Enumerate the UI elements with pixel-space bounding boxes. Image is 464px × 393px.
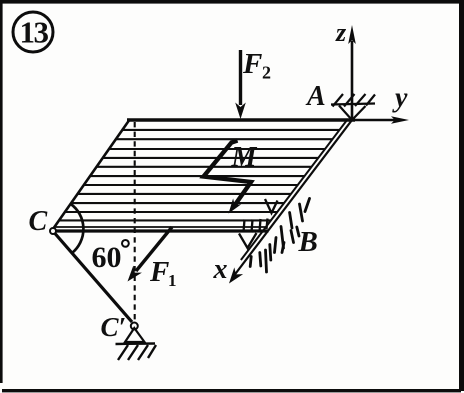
moment M zigzag arrow: [204, 141, 252, 214]
bar C-C': [55, 234, 132, 323]
svg-text:C′: C′: [101, 312, 127, 342]
svg-text:1: 1: [168, 271, 177, 290]
support at A: V-shaped links: [339, 106, 366, 121]
label F1: [149, 256, 177, 290]
plate left edge: [53, 119, 130, 229]
svg-text:A: A: [305, 81, 326, 112]
support at B: short strokes: [244, 219, 268, 233]
svg-text:M: M: [231, 142, 258, 173]
plate bottom edge thin line: [56, 226, 267, 228]
label F2: [242, 48, 271, 83]
svg-text:z: z: [335, 18, 347, 47]
svg-text:C: C: [29, 206, 48, 237]
svg-text:B: B: [298, 226, 318, 258]
plate hatching lines: [59, 130, 340, 221]
angle arc at C: [71, 204, 84, 253]
pin support at C': ground line: [116, 342, 156, 345]
plate right edge inner line: [241, 120, 347, 260]
support hatching along B edge (right of line): [250, 199, 309, 273]
svg-text:60: 60: [92, 241, 122, 274]
dashed vertical line through C': [134, 122, 136, 321]
pin support at C': ground hatching: [118, 345, 156, 360]
support at A: ceiling line: [331, 104, 375, 105]
pin support at C': triangle: [125, 328, 145, 342]
z axis: [348, 25, 356, 119]
variant number 13 badge: [13, 12, 53, 52]
svg-text:x: x: [213, 254, 228, 285]
y axis: [355, 116, 409, 124]
support at B: V link lower: [239, 233, 257, 248]
hinge C: [50, 228, 56, 234]
plate top edge (along y axis): [127, 118, 355, 121]
plate bottom edge thick line: [53, 229, 269, 232]
force F2 arrow: [235, 50, 246, 119]
label 60 degrees: [92, 240, 129, 274]
svg-text:F: F: [149, 256, 169, 288]
svg-text:F: F: [242, 48, 262, 80]
support at B: V link upper: [265, 199, 278, 213]
svg-text:y: y: [392, 83, 408, 114]
svg-text:2: 2: [262, 63, 271, 83]
plate right edge outer line / x axis: [235, 120, 353, 275]
support at A: ceiling hatching: [333, 94, 376, 107]
pin support at C': hinge circle: [131, 323, 138, 330]
svg-text:13: 13: [20, 15, 49, 50]
force F1 arrow: [128, 227, 173, 282]
x axis arrowhead: [229, 267, 243, 283]
